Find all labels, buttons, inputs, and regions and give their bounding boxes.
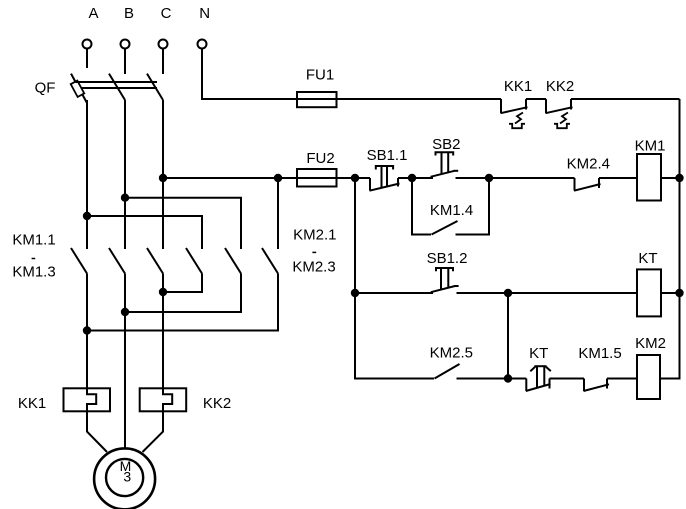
- svg-text:SB1.2: SB1.2: [427, 250, 468, 267]
- svg-text:A: A: [88, 5, 98, 22]
- svg-text:KM2.1: KM2.1: [293, 226, 336, 243]
- wire row3 left: [355, 292, 433, 294]
- terminal N: [198, 40, 207, 49]
- timer contact KT actuator: [535, 365, 547, 367]
- junction phase B upper crossover: [121, 194, 129, 202]
- svg-text:KM2.5: KM2.5: [430, 345, 473, 362]
- svg-text:FU1: FU1: [306, 66, 334, 83]
- svg-text:KM1.5: KM1.5: [578, 345, 621, 362]
- wire self-hold branch left: [412, 178, 431, 235]
- svg-text:KM1.3: KM1.3: [12, 264, 55, 281]
- circuit breaker QF release box: [71, 81, 85, 97]
- timer coil KT: [637, 269, 661, 316]
- button SB1.2 NO contact blade: [431, 286, 455, 292]
- wire phase B QF to KM1.2: [124, 100, 126, 249]
- svg-text:FU2: FU2: [306, 150, 334, 167]
- wire SB1.1 to SB2: [398, 177, 433, 179]
- junction control left row2: [351, 174, 359, 182]
- motor M outer circle: [94, 448, 155, 509]
- svg-text:SB2: SB2: [432, 136, 460, 153]
- fuse FU1: [297, 92, 337, 107]
- wire KK2 to motor: [143, 411, 164, 452]
- wire KK2 to right bus: [571, 98, 680, 100]
- fuse FU2: [297, 169, 337, 187]
- junction KM2.3 riser: [274, 174, 282, 182]
- circuit breaker QF linkage bar upper: [76, 81, 158, 83]
- junction phase C control tap: [159, 174, 167, 182]
- wire KK1 to KK2: [526, 98, 546, 100]
- wire KM2.4 to KM1 coil: [599, 177, 637, 179]
- svg-text:KM2.3: KM2.3: [292, 258, 335, 275]
- junction row3 mid: [504, 289, 512, 297]
- thermal contact KK1: [500, 99, 502, 113]
- thermal relay KK1 heater: [64, 388, 111, 411]
- svg-text:KM1.4: KM1.4: [430, 202, 473, 219]
- svg-text:QF: QF: [35, 80, 56, 97]
- wire crossover KM2.2 bottom to B: [125, 274, 241, 313]
- wire phase C QF to KM1.3: [162, 100, 164, 249]
- wire row3 to row4 drop: [507, 293, 509, 379]
- wire crossover B to KM2.2 top: [125, 198, 241, 249]
- wire SB2 to KM2.4: [456, 177, 575, 179]
- wire riser KM2.3 top: [277, 178, 279, 249]
- wire A terminal to QF: [86, 49, 88, 69]
- wire phase B lower: [124, 274, 126, 449]
- wire C terminal to QF: [162, 49, 164, 75]
- svg-text:KK2: KK2: [546, 78, 574, 95]
- svg-text:KM1.1: KM1.1: [12, 232, 55, 249]
- contact KM2.2 blade: [225, 248, 241, 274]
- thermal contact KK2: [545, 99, 547, 113]
- circuit breaker QF pole 3 blade: [147, 74, 163, 100]
- contact KM1.3 blade: [147, 248, 163, 274]
- svg-text:3: 3: [123, 469, 131, 485]
- terminal C: [159, 40, 168, 49]
- circuit breaker QF pole 1 blade: [71, 74, 87, 103]
- wire junction to KT contact: [508, 378, 526, 380]
- svg-text:KT: KT: [638, 250, 657, 267]
- wire KM2.5 to junction: [457, 378, 509, 380]
- svg-text:KM1: KM1: [635, 137, 666, 154]
- button SB2 plunger: [436, 152, 454, 155]
- contact KM2.1 blade: [186, 248, 202, 274]
- terminal B: [121, 40, 130, 49]
- wire crossover KM2.1 bottom to C: [163, 274, 202, 293]
- wire phase A QF to KM1.1: [86, 100, 88, 249]
- thermal element symbol KK2: [560, 113, 568, 124]
- circuit breaker QF linkage bar lower: [81, 87, 157, 89]
- contact KM2.5 NO blade: [435, 364, 460, 379]
- contactor coil KM1: [637, 154, 661, 201]
- junction row4 mid: [504, 374, 512, 382]
- junction phase C lower crossover: [159, 288, 167, 296]
- svg-text:KT: KT: [529, 345, 548, 362]
- junction phase A upper crossover: [83, 212, 91, 220]
- button SB1.1 plunger: [376, 166, 393, 170]
- junction self-hold left: [408, 174, 416, 182]
- junction bus KT: [675, 289, 683, 297]
- svg-text:KK1: KK1: [18, 395, 46, 412]
- terminal A: [83, 40, 92, 49]
- right bus wire: [660, 99, 680, 379]
- contactor coil KM2: [637, 355, 660, 399]
- thermal relay KK2 heater: [140, 388, 187, 411]
- wire crossover KM2.3 bottom to A: [87, 274, 278, 331]
- junction self-hold right: [485, 174, 493, 182]
- button SB1.2 plunger: [436, 268, 453, 271]
- svg-text:N: N: [199, 5, 210, 22]
- svg-text:KM2.4: KM2.4: [567, 155, 610, 172]
- wire N terminal down and right to FU1: [202, 49, 297, 100]
- contact KM1.5 NC: [583, 379, 585, 392]
- wire KT contact to KM1.5: [550, 378, 585, 380]
- junction control left row3: [351, 289, 359, 297]
- contact KM2.3 blade: [262, 248, 278, 274]
- wire control left drop: [355, 178, 434, 379]
- wire KT coil to bus: [661, 292, 680, 294]
- contact KM2.4 NC: [574, 178, 576, 191]
- wire FU1 row: [297, 98, 501, 100]
- svg-text:SB1.1: SB1.1: [367, 147, 408, 164]
- wire crossover A to KM2.1 top: [87, 216, 202, 249]
- wire KK1 to motor: [87, 411, 107, 452]
- contact KM1.4 NO blade: [432, 221, 458, 235]
- thermal element symbol KK1: [515, 113, 523, 124]
- wire control row 2 left: [163, 177, 370, 179]
- button SB1.1 NC contact: [369, 178, 371, 191]
- svg-text:KM2: KM2: [635, 335, 666, 352]
- contact KM1.2 blade: [109, 248, 125, 274]
- wire SB1.2 to KT coil: [457, 292, 638, 294]
- junction phase B lower crossover: [121, 308, 129, 316]
- junction bus KM1: [675, 174, 683, 182]
- button SB2 NO contact blade: [431, 171, 455, 177]
- svg-text:KK1: KK1: [504, 78, 532, 95]
- svg-text:KK2: KK2: [203, 395, 231, 412]
- wire phase A lower: [86, 274, 88, 389]
- junction phase A lower crossover: [83, 326, 91, 334]
- wire KM1.5 to KM2 coil: [607, 378, 637, 380]
- wire B terminal to QF: [124, 49, 126, 75]
- wire self-hold branch right: [456, 178, 490, 235]
- timer contact KT delayed: [525, 379, 527, 392]
- wire KM1 coil to bus: [661, 177, 680, 179]
- contact KM1.1 blade: [71, 248, 87, 274]
- motor M inner circle: [106, 459, 143, 496]
- wire phase C lower: [162, 274, 164, 389]
- circuit breaker QF pole 2 blade: [109, 74, 125, 100]
- svg-text:B: B: [124, 5, 134, 22]
- svg-text:C: C: [161, 5, 172, 22]
